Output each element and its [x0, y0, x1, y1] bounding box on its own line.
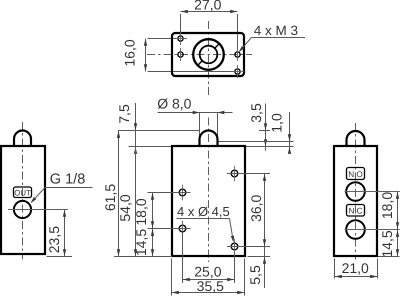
mounting hole Ø4,5 #1 — [179, 189, 186, 196]
svg-text:61,5: 61,5 — [102, 184, 118, 211]
dimension Ø 8,0 extension line right — [217, 113, 219, 138]
front view centerline vertical — [208, 118, 210, 263]
port circle crosshair horizontal — [8, 209, 68, 211]
left view centerline vertical — [22, 122, 24, 260]
bottom hole extension line left column — [182, 233, 184, 284]
right view centerline vertical — [355, 123, 357, 260]
dimension 16,0 extension line bottom — [148, 71, 235, 73]
label G 1/8 leader diagonal — [31, 188, 45, 203]
dimension 18,0 line right — [397, 192, 399, 230]
left view body outline — [1, 146, 45, 254]
dome top extension stub right — [259, 130, 270, 132]
dimension 21,0 extension line left — [334, 259, 336, 279]
svg-text:Ø 8,0: Ø 8,0 — [157, 96, 191, 112]
label 4 x M 3 leader line — [252, 37, 306, 39]
svg-text:5,5: 5,5 — [247, 265, 263, 285]
top view centerline horizontal — [147, 54, 252, 56]
bore thread tick NE — [215, 44, 220, 49]
svg-text:G 1/8: G 1/8 — [50, 172, 85, 188]
mounting hole Ø4,5 #2 — [179, 225, 186, 232]
dimension 7,5 line with arrows — [135, 103, 137, 147]
dimension Ø 8,0 line — [158, 112, 233, 114]
svg-text:OUT: OUT — [14, 188, 31, 197]
dome equator extension line right — [218, 141, 294, 143]
svg-text:14,5: 14,5 — [379, 230, 395, 257]
hole extension line lower-right — [227, 246, 270, 248]
upper port crosshair horizontal — [345, 191, 400, 193]
top view centerline vertical — [208, 21, 210, 96]
body bottom extension line right — [248, 256, 271, 258]
dimension 36,0 line — [264, 174, 266, 247]
dome top extension line — [118, 130, 200, 132]
front view manual override dome — [200, 131, 218, 147]
dimension 3,5 line — [265, 104, 267, 151]
dimension 27,0 line — [181, 11, 238, 13]
dimension 5,5 line — [264, 247, 266, 289]
dimension 18,0 line left — [152, 193, 154, 229]
svg-text:25,0: 25,0 — [194, 263, 221, 279]
svg-text:16,0: 16,0 — [122, 39, 138, 66]
svg-text:1,0: 1,0 — [269, 113, 285, 133]
flange center bore inner circle — [200, 46, 218, 64]
lower port crosshair horizontal — [345, 229, 400, 231]
front view body outline — [172, 146, 245, 256]
label G 1/8 leader underline — [45, 187, 93, 189]
dimension 21,0 extension line right — [377, 259, 379, 279]
svg-text:N.C: N.C — [348, 207, 362, 216]
body top extension line left — [129, 146, 173, 148]
dimension 16,0 line — [145, 39, 147, 72]
svg-text:3,5: 3,5 — [248, 103, 264, 123]
svg-text:N.O: N.O — [348, 170, 363, 179]
M3 hole 3 — [235, 52, 240, 57]
right view upper port circle — [346, 182, 365, 201]
dimension 21,0 line — [335, 276, 378, 278]
hole extension line lower-left — [148, 228, 191, 230]
dimension 14,5 line right — [397, 230, 399, 257]
hole extension line upper-right — [227, 173, 270, 175]
svg-text:35,5: 35,5 — [197, 278, 224, 294]
right view body outline — [334, 146, 377, 256]
dimension 54,0 line — [135, 147, 137, 257]
dimension 35,5 line — [172, 292, 245, 294]
dimension 27,0 extension line right — [237, 14, 239, 50]
svg-text:7,5: 7,5 — [116, 104, 132, 124]
label 4 x Ø 4,5 leader underline — [177, 218, 230, 220]
svg-text:18,0: 18,0 — [379, 192, 395, 219]
label box N.O — [347, 168, 365, 180]
label 4 x Ø 4,5 leader arrow — [231, 236, 234, 243]
left view port circle G1/8 — [14, 201, 31, 218]
dimension 61,5 line — [118, 131, 120, 257]
label G 1/8 leader arrow — [31, 197, 37, 203]
label 4 x Ø 4,5 leader diagonal — [230, 219, 234, 241]
flange plate outline — [172, 33, 244, 76]
M3 hole 4 — [235, 69, 240, 74]
right view dome — [347, 131, 365, 147]
label box OUT — [14, 187, 32, 198]
dimension 14,5 line left — [152, 229, 154, 257]
body top extension line right — [245, 146, 294, 148]
mounting hole Ø4,5 #4 — [231, 243, 238, 250]
svg-text:23,5: 23,5 — [46, 226, 62, 253]
body bottom extension line left — [114, 256, 172, 258]
svg-text:36,0: 36,0 — [248, 194, 264, 221]
mounting hole Ø4,5 #3 — [231, 170, 238, 177]
dimension 1,0 line — [289, 112, 291, 154]
left view dome — [14, 131, 31, 147]
M3 hole 1 — [178, 36, 183, 41]
svg-text:14,5: 14,5 — [133, 229, 149, 256]
svg-text:21,0: 21,0 — [342, 260, 369, 276]
right view lower port circle — [346, 220, 365, 239]
M3 hole 2 — [178, 52, 183, 57]
flange center bore outer circle — [193, 39, 224, 70]
label box N.C — [347, 205, 365, 217]
body corner extension line bottom-right — [244, 259, 246, 296]
right view bottom extension line — [378, 256, 400, 258]
dimension 25,0 line — [183, 279, 235, 281]
bore thread tick SW — [198, 61, 203, 66]
svg-text:4 x M 3: 4 x M 3 — [254, 23, 298, 38]
svg-text:54,0: 54,0 — [117, 194, 133, 221]
dimension 23,5 line — [64, 210, 66, 257]
label 4 x M 3 leader arrow — [239, 46, 245, 52]
svg-text:27,0: 27,0 — [194, 0, 221, 13]
dimension 16,0 extension line top — [148, 38, 177, 40]
dimension 27,0 extension line left — [180, 14, 182, 35]
dimension Ø 8,0 extension line left — [199, 113, 201, 138]
hole extension line upper-left — [148, 192, 191, 194]
left view bottom extension line — [47, 256, 73, 258]
bottom hole extension line right column — [234, 251, 236, 283]
svg-text:18,0: 18,0 — [133, 198, 149, 225]
svg-text:4 x Ø 4,5: 4 x Ø 4,5 — [177, 204, 230, 219]
body corner extension line bottom-left — [171, 259, 173, 296]
